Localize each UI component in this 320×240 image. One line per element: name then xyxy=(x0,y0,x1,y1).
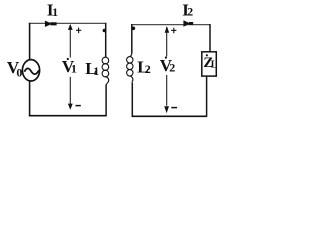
label ZL with hat xyxy=(206,54,208,56)
wire: right loop right vertical upper xyxy=(209,24,211,52)
svg-text:1: 1 xyxy=(52,5,58,19)
svg-text:2: 2 xyxy=(145,62,151,76)
voltage arrow V2 line lower xyxy=(166,75,168,106)
AC source V0 circle xyxy=(22,60,39,81)
voltage arrow V2 line upper xyxy=(166,27,168,57)
voltage arrow V1 line lower xyxy=(69,77,71,104)
voltage arrow V2 down head xyxy=(164,106,169,113)
wire: right loop left vertical upper xyxy=(131,24,133,53)
wire: L1 branch vertical upper xyxy=(105,23,107,58)
inductor L1 coil xyxy=(102,57,109,64)
wire: right loop left vertical lower xyxy=(131,83,133,117)
AC source sine symbol xyxy=(24,68,39,74)
load box ZL xyxy=(202,52,217,76)
wire: L1 branch vertical lower xyxy=(105,85,107,117)
wire: left loop left vertical upper xyxy=(29,23,31,60)
wire: left loop bottom horizontal xyxy=(29,115,107,117)
plus sign near V1 top xyxy=(76,29,81,31)
svg-text:2: 2 xyxy=(169,60,175,74)
svg-text:L: L xyxy=(211,60,218,71)
current arrow I2 xyxy=(183,20,190,26)
plus sign near V2 top xyxy=(171,29,176,31)
wire: right loop bottom horizontal xyxy=(132,115,207,117)
wire: right loop top horizontal xyxy=(131,24,210,26)
svg-text:1: 1 xyxy=(71,62,77,76)
current arrow I1 xyxy=(45,21,52,27)
wire: right loop right vertical lower below load xyxy=(206,76,208,117)
minus sign near V1 bottom xyxy=(76,105,81,107)
voltage arrow V1 up head xyxy=(68,24,73,30)
wire: left loop left vertical lower xyxy=(29,81,31,117)
inductor L2 coil xyxy=(130,53,132,57)
transformer polarity dot right winding xyxy=(132,27,136,31)
minus sign near V2 bottom xyxy=(171,107,177,109)
label V2 with phasor dot xyxy=(165,57,167,59)
svg-text:2: 2 xyxy=(187,5,193,19)
transformer polarity dot left winding xyxy=(103,29,107,33)
label V1 with phasor dot xyxy=(67,58,69,60)
voltage arrow V2 up head xyxy=(165,26,170,33)
voltage arrow V1 line upper xyxy=(69,25,71,58)
svg-text:1: 1 xyxy=(93,64,99,78)
svg-text:0: 0 xyxy=(16,66,22,80)
voltage arrow V1 down head xyxy=(68,104,73,110)
wire: left loop top horizontal xyxy=(29,22,106,24)
